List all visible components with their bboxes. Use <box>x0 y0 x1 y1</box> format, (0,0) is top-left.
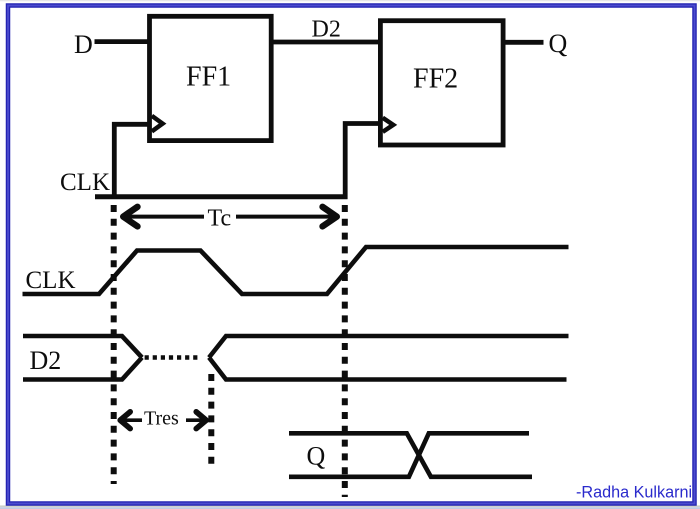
svg-text:FF1: FF1 <box>186 62 231 93</box>
svg-text:FF2: FF2 <box>413 64 458 95</box>
flip-flop FF1 <box>150 16 272 140</box>
waveform D2 bottom trace left <box>23 358 142 380</box>
wire Q output <box>503 40 544 45</box>
waveform Q low-to-high trace <box>289 433 529 477</box>
dashed timing line right <box>342 205 348 497</box>
wire D input <box>95 39 151 44</box>
svg-text:Q: Q <box>307 442 326 471</box>
wire CLK riser to FF1 <box>114 124 151 199</box>
dashed timing line left <box>111 205 117 484</box>
svg-text:D: D <box>74 30 93 59</box>
clock input triangle FF1 <box>152 116 163 132</box>
svg-text:CLK: CLK <box>60 169 110 196</box>
flip-flop FF2 <box>380 21 503 145</box>
svg-text:Tres: Tres <box>144 408 179 430</box>
waveform D2 top trace left <box>23 336 142 358</box>
label Tc <box>204 203 236 232</box>
waveform D2 dotted transition <box>145 355 201 359</box>
wire D2 FF1-to-FF2 <box>271 40 381 45</box>
waveform Q high-to-low trace <box>289 433 532 477</box>
svg-text:CLK: CLK <box>26 267 76 294</box>
svg-text:Q: Q <box>549 29 568 58</box>
waveform D2 top trace right <box>209 336 569 358</box>
clock input triangle FF2 <box>383 118 394 132</box>
waveform CLK trace <box>23 247 569 294</box>
svg-text:D2: D2 <box>312 17 341 43</box>
label Tres <box>142 408 186 431</box>
waveform D2 bottom trace right <box>209 358 567 380</box>
svg-text:Tc: Tc <box>208 206 232 232</box>
svg-text:D2: D2 <box>30 346 62 375</box>
wire CLK riser to FF2 <box>345 124 382 200</box>
dashed timing line middle <box>208 374 214 465</box>
arrow Tres <box>120 412 206 429</box>
wire CLK main <box>95 194 348 199</box>
svg-text:-Radha Kulkarni: -Radha Kulkarni <box>576 484 692 502</box>
arrow Tc <box>123 207 337 227</box>
